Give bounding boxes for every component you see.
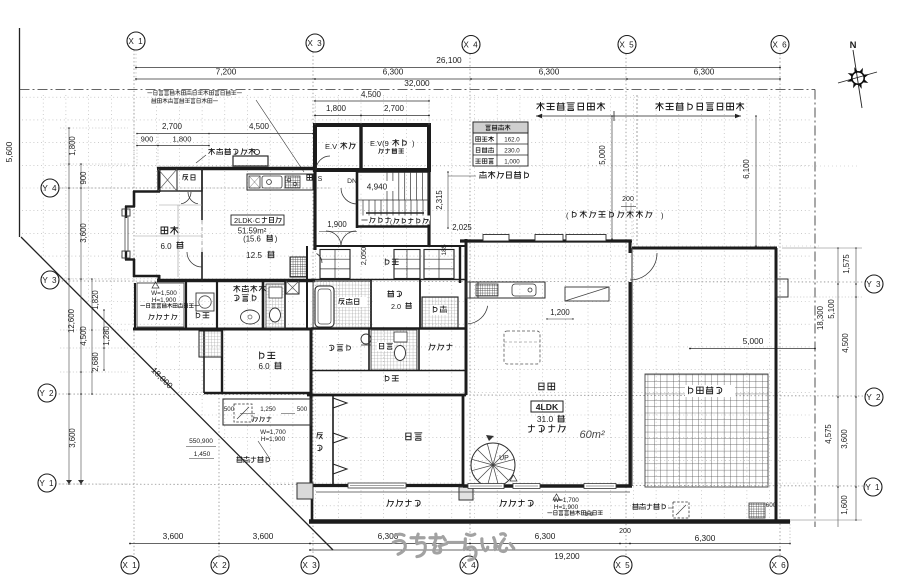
svg-text:162.0: 162.0 [504,137,520,144]
regulation table [473,122,528,166]
svg-text:X 3: X 3 [307,39,322,48]
svg-text:X 6: X 6 [771,561,786,570]
vertical dim 6,100 zoning [755,116,757,246]
svg-text:Y 3: Y 3 [866,280,881,289]
svg-text:2.0: 2.0 [391,302,401,311]
dotted construction x632 plaza left [631,210,633,374]
bathtub [315,286,334,327]
note leader line [256,100,304,172]
svg-text:H=1,900: H=1,900 [152,297,177,304]
svg-text:185: 185 [441,244,448,256]
balcony washitsu side [137,283,184,327]
label W1700 H1900 living veranda [553,494,560,500]
dim 4500 above EV [315,100,429,102]
svg-text:4,500: 4,500 [249,122,270,131]
wc2 tile and toilet [371,330,417,370]
svg-text:2,025: 2,025 [452,223,472,232]
yoshitsu room walls [221,329,223,393]
roof plaza hatch [645,374,768,487]
grid bubble X_6 [771,36,789,54]
svg-text:31.0: 31.0 [537,414,554,424]
wall notch right [776,279,788,297]
window bedroom bottom [348,483,406,488]
svg-text:6,300: 6,300 [535,531,556,541]
grid bubble X_3 [306,34,324,52]
svg-text:5,000: 5,000 [598,145,607,165]
label juutaku [539,383,555,390]
svg-text:500: 500 [297,406,308,413]
label 4LDK boxed [531,401,563,412]
escape hatch living veranda with leader [633,503,666,509]
wall bedroom west x310 [310,329,313,487]
wall wet row bottom [133,328,311,331]
svg-text:500: 500 [224,406,235,413]
label PS S [307,175,312,180]
svg-text:3,600: 3,600 [68,428,77,448]
right dim vertical lines [837,248,839,527]
svg-text:2,700: 2,700 [162,122,183,131]
axis grid Y2 horizontal dotted [55,394,866,396]
svg-text:5,000: 5,000 [743,336,764,346]
horizontal dim 5,000 roof [690,348,815,350]
zoning label dai-isshu teiso jukyo chiiki [656,102,744,110]
svg-text:5,100: 5,100 [827,299,836,319]
bay window glass washitsu [122,209,130,216]
grid bubble X_5 [618,36,636,54]
dense hatch understair box [290,257,307,277]
label living katakana [528,425,565,432]
hatch box 600 right [749,503,765,518]
escape hatch bedroom veranda [234,404,252,422]
label rouka upper [385,259,398,265]
grid bubble X_4 [460,556,478,574]
oshiire swing arcs [181,192,191,204]
label benjo small [377,342,394,351]
svg-text:X 6: X 6 [772,40,787,49]
stair rail center [366,212,424,214]
svg-text:2LDK·C: 2LDK·C [234,216,261,225]
svg-text:6,100: 6,100 [742,159,751,179]
svg-text:2,680: 2,680 [91,352,100,372]
construction dotted line at building top extension [100,165,860,167]
svg-text:1,820: 1,820 [91,290,100,310]
oshiire closets [158,169,202,191]
svg-text:12,600: 12,600 [67,308,76,333]
svg-text:X 1: X 1 [128,37,143,46]
roof plaza left boundary x632 [631,248,633,486]
svg-text:1,800: 1,800 [172,135,191,144]
dim row 900 1800 washitsu [137,145,209,147]
grid bubble Y_3 [865,275,883,293]
wall roof plaza right x776 [775,248,778,520]
svg-text:Y 2: Y 2 [866,393,881,402]
label 2LDK C-type boxed [231,215,284,225]
label genkan [430,305,447,315]
svg-text:26,100: 26,100 [436,55,462,65]
svg-text:X 5: X 5 [619,40,634,49]
axis grid Y1 horizontal dotted [55,484,866,486]
grid bubble Y_4 [41,179,59,197]
construction dotted line living top [450,245,820,247]
label rouka2 [385,375,398,381]
axis grid X1 vertical dotted [133,50,135,558]
door arc stair DN [341,188,357,204]
label in bath tile [337,297,367,307]
svg-text:6.0: 6.0 [258,362,270,371]
label senmen datsuiishitsu [234,285,266,292]
dim 1800 2700 above EV [315,115,429,117]
svg-text:DN: DN [347,178,357,185]
fridge box [466,282,478,298]
dim extension ticks top [135,50,137,82]
enshou dotted vertical line [636,95,638,246]
svg-text:4,940: 4,940 [367,183,388,192]
zoning extent arrow [536,115,741,117]
door arc EV hall entry [316,156,330,170]
svg-text:3,600: 3,600 [163,531,184,541]
dim row 2700 4500 washitsu [137,133,313,135]
shuunou closet strip [332,395,334,484]
svg-text:X 4: X 4 [463,40,478,49]
svg-text:(15.6: (15.6 [243,235,261,244]
zoning label dai-isshu jukyo chiiki [537,102,605,110]
washbasin oval [241,310,260,324]
grid bubble Y_1 [864,478,882,496]
wall EV block outer [315,125,429,170]
grid bubble X_1 [121,556,139,574]
svg-text:12.5: 12.5 [246,251,262,260]
hood shelf diagonal [565,287,609,301]
svg-text:900: 900 [79,171,88,185]
label veranda small [253,417,272,422]
svg-text:5,600: 5,600 [4,141,14,162]
site boundary right vertical dash-dot [814,90,816,528]
grid bubble Y_3 [41,271,59,289]
washbasin2 round [361,334,371,344]
label yoshitsu 6.0jo [260,352,275,359]
svg-text:X 5: X 5 [615,561,630,570]
left dim extension dotted [60,127,128,129]
svg-text:4,500: 4,500 [79,326,88,346]
svg-text:1,280: 1,280 [102,326,111,346]
label shuunou vertical [317,433,323,439]
svg-text:18,300: 18,300 [816,305,825,330]
right dim extension ticks [782,247,862,249]
svg-text:4,500: 4,500 [841,333,850,353]
top-left note text two lines [148,90,242,95]
svg-text:6,300: 6,300 [383,67,404,77]
svg-text:N: N [850,40,857,51]
PS shaft box with cross [286,281,299,294]
door arc living to roof [630,253,657,280]
axis grid X2 vertical dotted [218,398,220,558]
wall bottom of washitsu section [157,279,315,282]
wall bedroom living divider x463 [462,395,465,487]
pier square veranda corner [297,483,313,499]
small veranda bedroom outline [223,399,311,425]
label hall [429,344,452,350]
svg-text:): ) [275,235,278,244]
svg-text:Y 1: Y 1 [39,479,54,488]
kitchen counter living [470,282,545,298]
veranda left wall bedroom [311,487,314,521]
grid bubble X_3 [301,556,319,574]
label okujou hiroba [685,385,735,397]
svg-text:2,315: 2,315 [435,190,444,210]
svg-text:Y 4: Y 4 [42,184,57,193]
label tesuri toritsuke with leader [480,171,529,178]
svg-text:E.V: E.V [325,142,337,151]
svg-text:1,800: 1,800 [68,136,77,156]
svg-text:X 1: X 1 [122,561,137,570]
axis grid Y3 horizontal dotted [58,281,866,282]
veranda inner line [316,491,630,493]
bath tile floor [313,281,371,328]
site boundary top dash-dot 32000 line [20,89,816,91]
grid bubble X_1 [127,32,145,50]
label veranda living [500,500,533,507]
wall left of EV down to main [313,125,316,250]
svg-text:1,800: 1,800 [326,104,347,113]
svg-text:6.0: 6.0 [160,242,172,251]
axis grid Y4 horizontal dotted [58,187,330,189]
svg-text:W=1,500: W=1,500 [151,290,177,297]
wall living top y241 [460,239,632,242]
svg-text:H=1,900: H=1,900 [261,436,286,443]
triangle marker veranda [510,475,517,481]
svg-text:2,050: 2,050 [359,247,368,266]
pier below living divider [459,487,473,500]
svg-text:6,300: 6,300 [539,67,560,77]
svg-text:550,900: 550,900 [189,438,213,445]
grid bubble X_6 [770,556,788,574]
svg-text:19,200: 19,200 [554,551,580,561]
dim 2,315 right of stair [447,172,449,228]
label washitsu 6.0jo [161,226,178,234]
spine wall x307-311 [306,246,308,329]
wall hall bottom y328.5 [311,327,466,329]
svg-text:X 4: X 4 [461,561,476,570]
label yokushitsu [196,312,209,318]
wc1 room tile and toilet [266,284,285,328]
svg-text:2,700: 2,700 [384,104,405,113]
svg-text:60m²: 60m² [579,429,604,441]
svg-text:900: 900 [141,135,154,144]
axis grid X4 vertical dotted [469,54,471,558]
svg-text:4LDK: 4LDK [536,402,559,412]
grid bubble Y_1 [38,474,56,492]
axis grid X3 vertical dotted [312,52,314,558]
left dim chain lines [68,128,70,484]
svg-text:7,200: 7,200 [216,67,237,77]
wall under cupboards y279.5 [311,279,466,281]
svg-text:1,600: 1,600 [840,495,849,515]
wall y395 bedroom top [307,394,466,397]
svg-text:4,575: 4,575 [824,424,833,444]
spiral stair [471,443,515,487]
cupboard grid boxes [320,250,350,279]
svg-text:1,200: 1,200 [550,308,570,317]
svg-text:X 3: X 3 [302,561,317,570]
veranda bottom wall y521 [309,519,790,523]
wall row verticals [370,280,372,329]
wall row2 verticals [368,328,370,371]
wall EV divider [359,125,362,170]
genkan tile floor [422,297,458,328]
grid bubble X_2 [211,556,229,574]
tatami lines washitsu [177,205,179,277]
stair treads lower run [362,200,364,226]
kitchen counter LDK [247,174,313,190]
wall living bottom y486 [463,484,632,487]
svg-text:6,300: 6,300 [695,533,716,543]
dim line bottom 19200 [310,549,780,551]
grid bubble X_4 [462,36,480,54]
label shinshitsu [406,433,422,440]
vertical dim 5,000 zoning [611,116,613,239]
svg-text:600: 600 [766,502,777,509]
svg-text:H=1,900: H=1,900 [554,504,579,511]
svg-text:W=1,700: W=1,700 [553,497,579,504]
svg-text:S: S [318,176,323,183]
svg-text:3,600: 3,600 [253,531,274,541]
svg-text:X 2: X 2 [212,561,227,570]
grid bubble Y_2 [865,388,883,406]
svg-text:Y 3: Y 3 [42,276,57,285]
closet beside yoshitsu [199,331,222,357]
wall washitsu west lower step [125,258,135,260]
svg-text:1,900: 1,900 [327,220,347,229]
door arc genkan to living [468,306,488,324]
label stair dim 4,940 [360,181,394,191]
wall washitsu LDK divider [201,168,203,220]
wall main top left section [157,167,315,170]
dim ext dotted EV [314,101,316,125]
svg-text:1,450: 1,450 [194,451,211,458]
grid bubble X_5 [614,556,632,574]
wall stairwell outer [427,125,430,246]
svg-text:UP: UP [499,455,509,462]
axis grid X5 vertical dotted [625,54,627,558]
wall wet row verticals [185,281,187,329]
wall living right x630 [629,241,632,253]
svg-text:Y 1: Y 1 [865,483,880,492]
windows living bottom [468,484,504,489]
axis grid X6 vertical dotted [779,54,781,558]
dim line bottom chain [130,543,790,545]
window bumps living top [483,235,509,242]
label veranda1 [149,314,177,319]
svg-text:6,300: 6,300 [694,67,715,77]
svg-text:200: 200 [622,196,634,203]
svg-text:200: 200 [619,528,631,535]
door arc washitsu [187,252,202,267]
label oshiire [183,175,195,180]
svg-text:1,250: 1,250 [260,406,276,413]
wall roof plaza top y248 [632,247,777,250]
svg-text:E.V(9: E.V(9 [370,139,389,148]
svg-text:Y 2: Y 2 [39,389,54,398]
site boundary left vertical [19,28,21,237]
label hinan hatch leader [237,456,270,462]
svg-text:4,500: 4,500 [361,90,382,99]
double door corridor arcs [326,231,341,246]
label W=1500 H=1900 balcony1 [152,282,159,288]
grid bubble Y_2 [38,384,56,402]
stair landing line [357,199,429,201]
svg-text:): ) [428,219,430,226]
site boundary diagonal 18000 [21,237,333,550]
tsuboniwa court white with label [373,282,418,327]
svg-text:32,000: 32,000 [404,78,430,88]
butsudan alcove bump [233,156,268,166]
wall y371 corridor2 top [311,370,466,372]
label veranda bedroom [387,500,420,507]
svg-text:3,600: 3,600 [79,223,88,243]
stair treads upper run [386,172,388,200]
svg-text:230.0: 230.0 [504,148,520,155]
wall bedroom bottom y484 [311,484,463,487]
dim line 26100 overall top [136,67,780,69]
label butsudan space with leader [209,148,255,154]
svg-text:1,575: 1,575 [842,254,851,274]
wall washitsu west stepped bay [158,168,161,192]
small door arc corridor west [317,254,323,264]
dashed dining table [504,331,540,364]
wall corridor top y246 [315,245,466,247]
dim line top spans 7200 6300 6300 6300 [136,78,780,80]
svg-text:W=1,700: W=1,700 [260,429,286,436]
washer in bathroom [196,293,214,311]
svg-text:3.0: 3.0 [585,512,593,518]
svg-text:1,000: 1,000 [504,159,520,166]
label tarappu stainless [360,216,430,225]
svg-text:3,600: 3,600 [840,429,849,449]
dim extension dotted washitsu [136,134,138,167]
watermark uchina-life gray [393,534,513,560]
label datsuiishitsu2 [329,345,350,351]
